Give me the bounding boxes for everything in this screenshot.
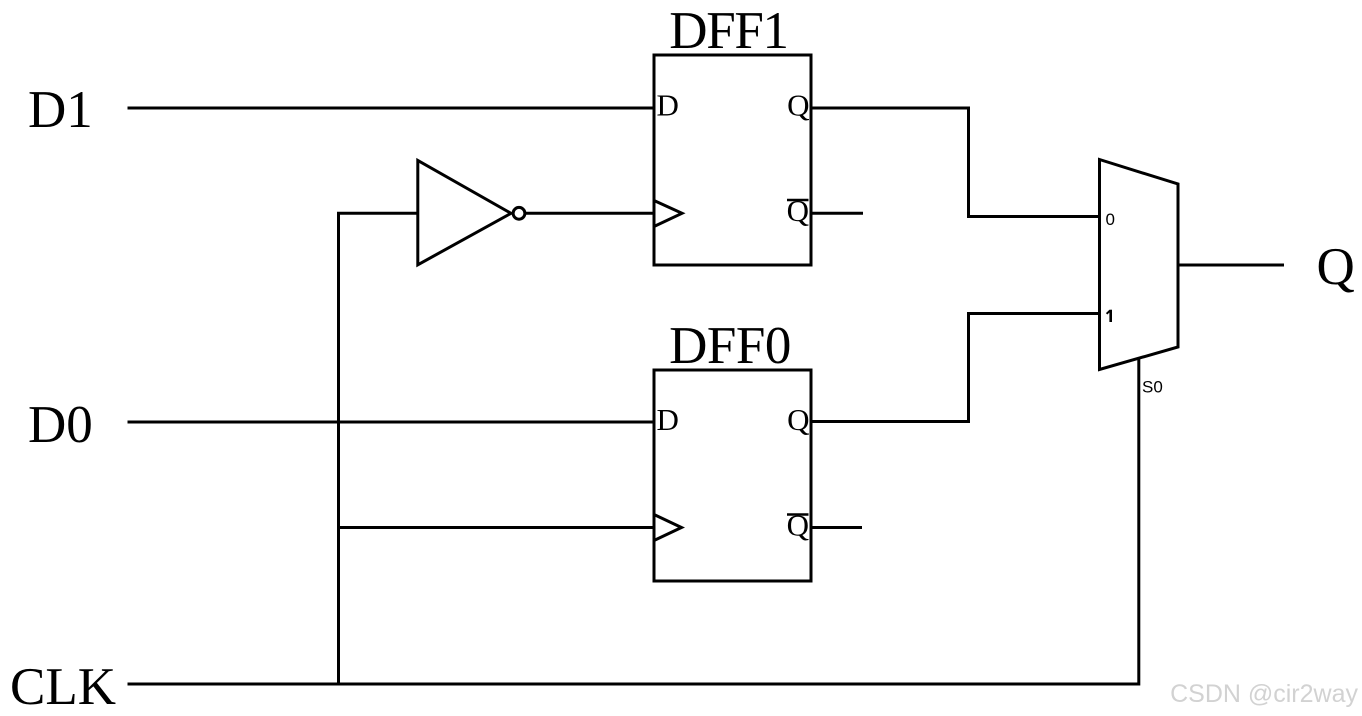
svg-text:DFF0: DFF0	[669, 317, 791, 375]
svg-text:0: 0	[1106, 210, 1115, 229]
svg-text:CLK: CLK	[10, 658, 116, 716]
svg-text:Q: Q	[1317, 238, 1355, 296]
svg-text:Q: Q	[787, 508, 809, 543]
svg-text:Q: Q	[787, 87, 809, 122]
svg-text:D0: D0	[28, 396, 93, 454]
svg-text:Q: Q	[787, 402, 809, 437]
svg-text:DFF1: DFF1	[669, 2, 788, 60]
svg-text:S0: S0	[1142, 378, 1163, 397]
svg-text:D: D	[657, 87, 679, 122]
svg-text:D: D	[657, 402, 679, 437]
svg-text:D1: D1	[28, 81, 93, 139]
svg-text:CSDN @cir2way: CSDN @cir2way	[1170, 680, 1358, 708]
svg-text:Q: Q	[787, 193, 809, 228]
